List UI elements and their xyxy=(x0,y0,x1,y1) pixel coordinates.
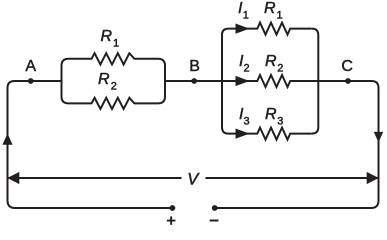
svg-text:−: − xyxy=(209,212,219,227)
svg-text:R: R xyxy=(98,71,110,88)
svg-text:A: A xyxy=(25,58,36,75)
svg-text:1: 1 xyxy=(113,38,119,50)
svg-text:R: R xyxy=(265,53,277,70)
svg-text:R: R xyxy=(101,28,113,45)
svg-text:3: 3 xyxy=(244,116,250,128)
svg-text:2: 2 xyxy=(277,63,283,75)
svg-text:1: 1 xyxy=(277,10,283,22)
svg-text:+: + xyxy=(167,213,176,227)
svg-text:R: R xyxy=(265,106,277,123)
svg-text:R: R xyxy=(264,0,276,17)
svg-text:1: 1 xyxy=(243,10,249,22)
svg-text:C: C xyxy=(341,58,353,75)
svg-text:B: B xyxy=(189,58,200,75)
svg-text:3: 3 xyxy=(277,116,283,128)
svg-text:2: 2 xyxy=(244,63,250,75)
svg-text:2: 2 xyxy=(111,81,117,93)
